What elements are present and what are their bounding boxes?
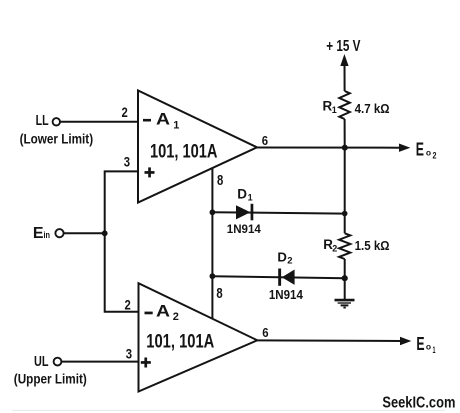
svg-text:1: 1 xyxy=(173,120,179,132)
svg-text:1N914: 1N914 xyxy=(269,287,304,302)
svg-text:(Upper Limit): (Upper Limit) xyxy=(14,371,87,386)
svg-text:3: 3 xyxy=(124,153,130,169)
svg-text:101, 101A: 101, 101A xyxy=(150,141,218,163)
svg-text:3: 3 xyxy=(126,345,132,361)
svg-text:2: 2 xyxy=(287,256,292,267)
svg-text:1.5 kΩ: 1.5 kΩ xyxy=(355,238,390,253)
svg-text:E: E xyxy=(33,225,44,242)
svg-text:2: 2 xyxy=(433,151,437,161)
svg-text:D: D xyxy=(277,250,287,265)
svg-text:A: A xyxy=(156,301,170,320)
svg-text:8: 8 xyxy=(217,173,223,189)
svg-text:o: o xyxy=(426,342,431,352)
svg-text:+ 15 V: + 15 V xyxy=(326,38,361,55)
svg-text:LL: LL xyxy=(36,113,49,129)
svg-text:UL: UL xyxy=(34,353,49,370)
svg-text:A: A xyxy=(156,109,170,128)
svg-text:1: 1 xyxy=(433,345,436,355)
svg-text:2: 2 xyxy=(125,296,131,312)
svg-text:101, 101A: 101, 101A xyxy=(146,331,214,353)
svg-text:2: 2 xyxy=(332,244,337,254)
svg-text:E: E xyxy=(416,140,424,160)
svg-text:D: D xyxy=(237,186,247,201)
svg-text:(Lower Limit): (Lower Limit) xyxy=(20,131,94,146)
svg-text:4.7 kΩ: 4.7 kΩ xyxy=(355,101,390,116)
svg-text:1N914: 1N914 xyxy=(227,223,262,236)
svg-text:6: 6 xyxy=(262,325,268,340)
svg-text:E: E xyxy=(416,334,424,354)
svg-text:o: o xyxy=(426,148,431,158)
svg-text:1: 1 xyxy=(332,105,337,115)
svg-text:8: 8 xyxy=(216,286,222,302)
svg-text:in: in xyxy=(44,230,51,241)
svg-text:2: 2 xyxy=(122,104,128,120)
svg-text:6: 6 xyxy=(262,133,268,148)
svg-text:1: 1 xyxy=(248,193,253,203)
svg-text:SeekIC.com: SeekIC.com xyxy=(382,394,455,411)
svg-text:2: 2 xyxy=(173,311,179,323)
